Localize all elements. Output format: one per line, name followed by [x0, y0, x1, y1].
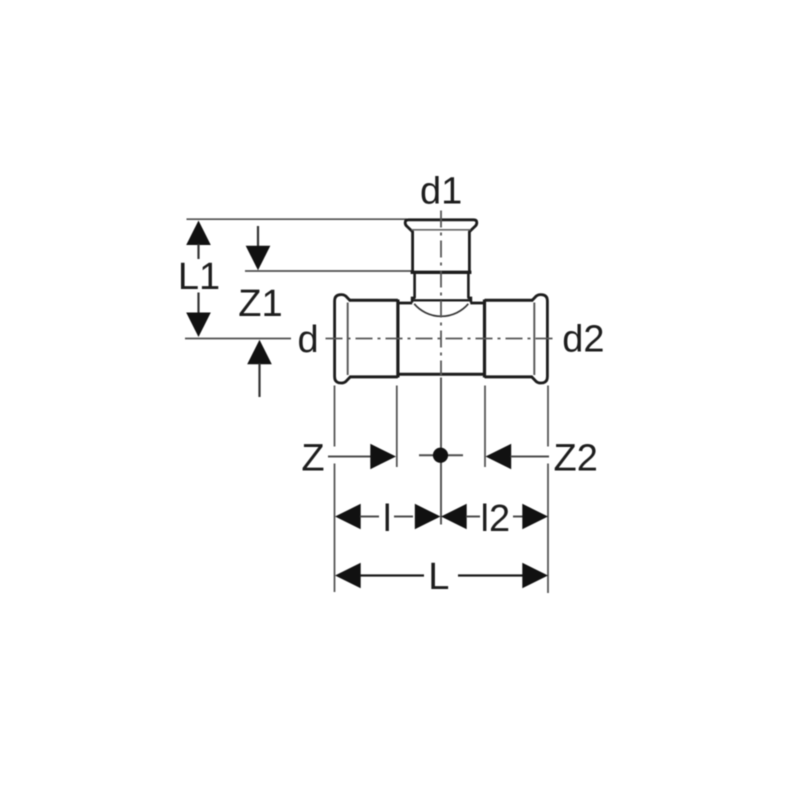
branch root line	[412, 299, 471, 301]
d dimension arrow up	[247, 340, 272, 397]
svg-text:d: d	[298, 319, 319, 361]
svg-text:L: L	[428, 556, 449, 598]
extension line right step	[484, 386, 486, 468]
branch socket wall right	[468, 231, 471, 272]
svg-text:d1: d1	[420, 171, 462, 213]
branch socket step	[411, 271, 472, 274]
extension line right end upper	[547, 386, 549, 447]
left socket bottom edge	[350, 375, 398, 378]
branch tube wall left	[413, 273, 416, 298]
l dimension line left	[360, 516, 379, 518]
body top edge right	[470, 302, 484, 305]
branch root flare left	[412, 298, 415, 303]
left press collar	[335, 295, 351, 383]
right socket bottom edge	[485, 375, 533, 378]
left socket step	[396, 300, 399, 378]
svg-text:Z: Z	[301, 438, 324, 480]
Z2 arrowhead left	[486, 444, 512, 469]
extension line left step	[396, 386, 398, 468]
l arrowhead right	[415, 504, 441, 529]
branch root flare right	[468, 298, 471, 303]
l2 arrowhead right	[522, 504, 548, 529]
L1 dimension arrow down	[186, 293, 211, 338]
l dimension line right	[394, 516, 413, 518]
branch bore arc	[414, 304, 468, 317]
right socket top edge	[485, 299, 533, 302]
L arrowhead right	[522, 563, 548, 588]
svg-text:d2: d2	[562, 318, 604, 360]
L dimension line right	[458, 574, 523, 576]
branch socket wall left	[411, 231, 414, 272]
l arrowhead left	[335, 504, 361, 529]
right press collar	[532, 295, 548, 383]
l2 dimension line left	[466, 516, 480, 518]
svg-text:Z2: Z2	[554, 438, 598, 480]
Z arrowhead right	[370, 444, 396, 469]
Z dimension line	[328, 456, 371, 458]
vertical centerline of branch	[440, 211, 442, 377]
center dot	[433, 448, 448, 463]
l2 arrowhead left	[441, 504, 467, 529]
right collar inner edge	[533, 303, 535, 376]
l2 dimension line right	[513, 516, 536, 518]
L dimension line left	[360, 574, 424, 576]
right socket step	[483, 300, 486, 378]
L arrowhead left	[335, 563, 361, 588]
horizontal centerline of run	[326, 338, 554, 340]
svg-text:Z1: Z1	[238, 283, 282, 325]
branch collar inner edge	[412, 229, 471, 231]
branch collar	[405, 220, 477, 232]
extension line center	[440, 378, 442, 525]
branch tube wall right	[467, 273, 470, 298]
extension line right end lower	[547, 464, 549, 594]
center mark line	[419, 454, 463, 456]
body bottom edge	[398, 373, 485, 376]
extension line left end upper	[334, 386, 336, 447]
extension line left end lower	[334, 464, 336, 593]
svg-text:L1: L1	[178, 256, 220, 298]
dimension line d (centerline extension left)	[185, 338, 291, 340]
svg-text:l: l	[383, 498, 391, 540]
left collar inner edge	[347, 303, 349, 376]
dimension line top (branch top reference)	[187, 218, 407, 220]
left socket top edge	[350, 299, 398, 302]
Z1 dimension arrow down	[246, 226, 271, 270]
dimension line Z1 reference	[245, 270, 412, 272]
L1 dimension arrow up	[186, 221, 211, 260]
Z2 dimension line	[511, 456, 550, 458]
svg-text:l2: l2	[481, 498, 511, 540]
body top edge left	[398, 302, 412, 305]
